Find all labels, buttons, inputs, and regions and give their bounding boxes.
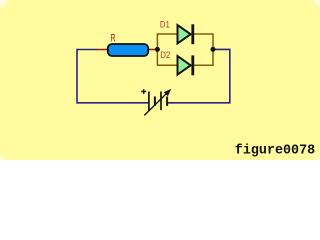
svg-text:figure0078: figure0078: [235, 143, 315, 158]
node junction right: [211, 47, 216, 52]
plus sign: [141, 89, 146, 94]
resistor R body: [108, 44, 148, 56]
plate short right: [166, 97, 168, 106]
battery BT (variable): [141, 89, 171, 116]
diode D1: [178, 24, 195, 44]
wire: diode branch right (cathode wires and right stub): [194, 34, 213, 65]
svg-text:D1: D1: [160, 19, 170, 30]
variable arrow: [144, 94, 166, 116]
wire: bottom rail from battery - to right bus: [167, 49, 230, 102]
node junction left: [155, 47, 160, 52]
svg-text:D2: D2: [160, 50, 170, 61]
wire: diode branch left (anode wires and left stub): [157, 34, 177, 65]
plate long: [160, 92, 162, 111]
wire: resistor right pin: [149, 49, 156, 51]
plate long left: [148, 92, 150, 111]
plate short: [154, 97, 156, 106]
svg-text:R: R: [111, 32, 116, 44]
wire: left loop (top rail, left vertical, bottom rail to battery +): [77, 50, 149, 103]
diode D2: [178, 55, 195, 75]
wire: resistor left pin: [98, 49, 109, 51]
